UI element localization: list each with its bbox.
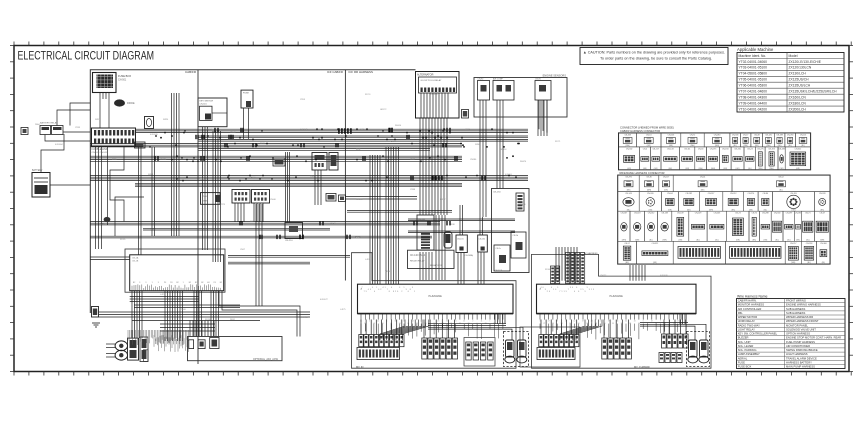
svg-text:7: 7 (559, 291, 560, 293)
svg-text:9: 9 (557, 287, 558, 289)
svg-text:▲ CAUTION: Parts numbers on th: ▲ CAUTION: Parts numbers on the drawing … (583, 51, 725, 55)
wire (408, 231, 515, 233)
flasher unit (285, 223, 303, 239)
svg-text:ZX135US/LCH: ZX135US/LCH (789, 84, 811, 88)
svg-text:L-R46: L-R46 (520, 204, 526, 206)
svg-text:4: 4 (374, 291, 375, 293)
wire (428, 324, 506, 329)
connector cell (707, 211, 727, 241)
svg-text:5W24: 5W24 (163, 119, 169, 121)
wire (228, 262, 310, 264)
svg-text:RELAY BOX: RELAY BOX (430, 264, 443, 267)
wire (194, 291, 202, 337)
connector cell (630, 211, 644, 241)
wire (110, 147, 124, 222)
wire (560, 320, 602, 341)
wire (143, 228, 330, 230)
connector cell (681, 133, 704, 147)
wire (688, 326, 695, 340)
svg-text:3: 3 (570, 287, 571, 289)
svg-text:B2: B2 (133, 282, 135, 284)
svg-text:CN-1A: CN-1A (132, 257, 139, 260)
wire (538, 100, 540, 129)
wire (315, 170, 321, 205)
svg-text:6: 6 (549, 291, 550, 293)
pressure sensor dashed box 2 (687, 332, 710, 367)
svg-text:(BK): (BK) (669, 168, 673, 170)
svg-text:39: 39 (612, 323, 614, 325)
svg-text:ZX130/LCH: ZX130/LCH (789, 72, 807, 76)
svg-text:36: 36 (617, 321, 619, 323)
connector plug (684, 334, 689, 348)
svg-text:0: 0 (543, 287, 544, 289)
connector cell (814, 211, 830, 241)
wire (134, 305, 240, 308)
wire (96, 147, 102, 249)
relay R2 (329, 153, 338, 171)
svg-text:CN-501: CN-501 (118, 79, 127, 82)
connector plug (446, 338, 451, 359)
connector group sub-box (520, 327, 580, 367)
svg-text:B2: B2 (195, 282, 197, 284)
svg-text:FRONT WIRING: FRONT WIRING (786, 299, 806, 303)
connector cell (689, 211, 707, 241)
svg-text:CN-72: CN-72 (751, 213, 756, 215)
svg-text:CN-118: CN-118 (634, 213, 640, 215)
pressure sensor PS2 (518, 340, 527, 357)
svg-text:SUB HARNESS: SUB HARNESS (786, 307, 805, 311)
svg-text:MONITOR HARNESS: MONITOR HARNESS (738, 303, 765, 307)
svg-text:6: 6 (578, 291, 579, 293)
svg-text:SOL. LEVER: SOL. LEVER (738, 344, 754, 348)
terminal block left (92, 307, 99, 318)
connector cell (744, 192, 758, 212)
wire (90, 176, 528, 181)
svg-text:AIR COMP: AIR COMP (493, 78, 504, 81)
svg-text:CN-109: CN-109 (695, 213, 702, 215)
svg-text:CN-73: CN-73 (330, 223, 337, 225)
pin stub row (361, 314, 503, 320)
pin stub row (540, 314, 686, 320)
svg-text:1: 1 (376, 287, 377, 289)
svg-text:P4: P4 (164, 282, 166, 284)
wire (190, 321, 214, 337)
connector plug (549, 335, 553, 347)
svg-text:CN-195: CN-195 (790, 193, 797, 195)
svg-text:AIR CONDITIONER: AIR CONDITIONER (786, 344, 810, 348)
svg-text:CN-62: CN-62 (202, 196, 209, 198)
svg-text:OPTIONAL_ADJ_ACW: OPTIONAL_ADJ_ACW (253, 358, 279, 361)
svg-text:YR59: YR59 (300, 99, 306, 101)
connector cell (740, 133, 751, 147)
svg-text:CN-217: CN-217 (652, 148, 659, 150)
svg-text:1: 1 (591, 289, 592, 291)
svg-text:MC (CAB/FR): MC (CAB/FR) (634, 365, 650, 369)
svg-text:YT08-04001-04300: YT08-04001-04300 (739, 96, 768, 100)
wire (106, 343, 115, 345)
multi-connector strip (537, 348, 575, 360)
svg-text:GR154: GR154 (500, 149, 507, 151)
svg-text:(GR): (GR) (685, 168, 689, 170)
connector cell (778, 147, 785, 170)
svg-text:8: 8 (389, 291, 390, 293)
svg-text:Applicable Machine: Applicable Machine (737, 47, 774, 52)
svg-text:5: 5 (566, 291, 567, 293)
svg-text:0: 0 (572, 287, 573, 289)
svg-text:KEY SWITCH: KEY SWITCH (200, 101, 214, 103)
svg-text:SOLENOID VALVE UNIT: SOLENOID VALVE UNIT (786, 327, 816, 331)
connector plug (379, 335, 383, 347)
svg-text:R2.56: R2.56 (390, 141, 396, 143)
svg-text:3: 3 (399, 287, 400, 289)
pressure sensor PS3 (689, 340, 698, 357)
svg-text:5: 5 (587, 287, 588, 289)
svg-text:CN-143: CN-143 (625, 193, 632, 195)
svg-text:1: 1 (414, 291, 415, 293)
wire (90, 236, 432, 238)
svg-text:0: 0 (574, 291, 575, 293)
svg-text:(WH): (WH) (698, 168, 703, 170)
svg-text:L-R75: L-R75 (340, 309, 346, 311)
svg-text:CN-274: CN-274 (748, 193, 755, 195)
svg-text:2: 2 (547, 291, 548, 293)
monitor controller block U1 (130, 255, 224, 291)
svg-text:5: 5 (369, 321, 370, 323)
svg-text:(BL): (BL) (822, 262, 826, 264)
svg-text:R2.35: R2.35 (120, 239, 126, 241)
wire (152, 147, 155, 236)
svg-text:7: 7 (362, 287, 363, 289)
wire label texture (35, 94, 669, 321)
svg-text:CN-328: CN-328 (819, 193, 826, 195)
svg-text:CN-1d: CN-1d (513, 235, 518, 237)
connector plug (659, 353, 664, 363)
wire (219, 291, 300, 337)
wire (380, 320, 429, 341)
svg-text:DIODE: DIODE (127, 102, 135, 105)
svg-text:4: 4 (551, 287, 552, 289)
svg-text:7: 7 (364, 291, 365, 293)
glow controller box (417, 215, 434, 250)
svg-text:4: 4 (383, 287, 384, 289)
svg-text:CN-312: CN-312 (730, 193, 737, 195)
svg-text:2: 2 (395, 291, 396, 293)
svg-text:17: 17 (548, 321, 550, 323)
svg-text:CN-47: CN-47 (819, 213, 824, 215)
svg-text:CN-23: CN-23 (747, 148, 752, 150)
svg-text:9: 9 (372, 287, 373, 289)
connector cell (618, 241, 637, 264)
svg-text:0.85G20: 0.85G20 (660, 275, 669, 277)
wire (107, 147, 109, 218)
svg-text:6: 6 (397, 291, 398, 293)
wire (541, 320, 577, 335)
sensor S2 (493, 81, 514, 101)
svg-text:TRAVEL ALARM DEVICE: TRAVEL ALARM DEVICE (786, 356, 817, 360)
svg-text:CN-296: CN-296 (625, 177, 632, 179)
main harness region box CAB (90, 70, 415, 313)
connector plug (434, 338, 439, 359)
connector cell (618, 211, 630, 241)
wire (254, 203, 263, 222)
svg-text:L-R90: L-R90 (150, 229, 156, 231)
wire comb texture (128, 330, 189, 352)
timer unit box (201, 193, 221, 205)
svg-text:R2.73: R2.73 (250, 177, 256, 179)
svg-text:1: 1 (553, 289, 554, 291)
svg-text:L-R37: L-R37 (440, 199, 446, 201)
svg-text:CN-302: CN-302 (626, 148, 633, 150)
svg-text:W-B14: W-B14 (395, 125, 402, 127)
wire (222, 291, 297, 337)
connector cell (723, 192, 744, 212)
svg-text:A1: A1 (207, 281, 209, 284)
svg-text:WIPER MOTOR: WIPER MOTOR (738, 315, 758, 319)
svg-text:YT05-04001-05100: YT05-04001-05100 (739, 78, 768, 82)
svg-text:L-R37: L-R37 (365, 259, 371, 261)
connector cell (817, 241, 831, 264)
junction cluster at alternator bundle (419, 128, 448, 138)
pin label texture above block (541, 287, 595, 293)
svg-text:MAIN PUMP HARNESS: MAIN PUMP HARNESS (786, 365, 815, 369)
wire (495, 314, 505, 324)
svg-text:RELAY RELAY: RELAY RELAY (410, 260, 425, 263)
connector plug (440, 338, 445, 359)
svg-text:0.85G39: 0.85G39 (205, 129, 214, 131)
fuse relay box ICF (492, 189, 530, 273)
svg-text:YR74: YR74 (465, 129, 471, 131)
wire (480, 100, 486, 217)
wire (235, 203, 244, 222)
svg-text:P4: P4 (170, 282, 172, 284)
svg-text:1: 1 (562, 291, 563, 293)
svg-text:YT04-05601-05800: YT04-05601-05800 (739, 72, 768, 76)
svg-text:FUSE: FUSE (738, 360, 745, 364)
svg-text:TIMER: TIMER (202, 201, 209, 203)
pressure sensor dashed box (504, 332, 529, 367)
wire (228, 256, 350, 258)
svg-text:LAMP ASSEMBLY: LAMP ASSEMBLY (738, 352, 760, 356)
connector plug (662, 334, 667, 348)
svg-text:CN-84: CN-84 (763, 193, 768, 195)
svg-text:CN-84: CN-84 (667, 193, 672, 195)
striped connector above MC2 (551, 266, 555, 284)
glow plug cylinder (444, 232, 452, 248)
svg-text:5: 5 (498, 321, 499, 323)
svg-text:0: 0 (555, 289, 556, 291)
svg-text:CN-1B: CN-1B (132, 261, 139, 263)
svg-text:0.85G60: 0.85G60 (430, 94, 439, 96)
battery BAT1 (32, 173, 50, 198)
harness region divider ICF (344, 70, 346, 281)
svg-text:CN-90: CN-90 (478, 79, 485, 81)
junction cluster at divider (338, 128, 352, 133)
svg-text:CN-71: CN-71 (805, 213, 810, 215)
svg-text:CN-113: CN-113 (800, 134, 806, 136)
svg-text:CN-126: CN-126 (668, 134, 675, 136)
connector plug (389, 335, 393, 347)
svg-text:CN-109: CN-109 (677, 213, 684, 215)
wire (211, 291, 219, 337)
striped connector above MC2 (566, 253, 570, 284)
connector cell (801, 211, 814, 241)
svg-text:B2: B2 (201, 282, 203, 284)
relay fuse strip block (92, 128, 136, 147)
long multi-pin strip (678, 247, 721, 259)
wire (199, 136, 529, 141)
connector group sub-box (464, 338, 495, 367)
wire (135, 183, 462, 186)
wire (160, 324, 215, 331)
connector cell (636, 133, 661, 147)
connector plug (554, 335, 558, 347)
connector cell (751, 133, 763, 147)
svg-text:CN-288: CN-288 (762, 213, 769, 215)
svg-text:CN-143: CN-143 (667, 148, 674, 150)
svg-text:YR88: YR88 (410, 189, 416, 191)
wire (57, 110, 90, 126)
svg-text:1: 1 (152, 282, 153, 284)
connector plug (575, 335, 579, 347)
connector cell (619, 133, 637, 147)
wire (420, 252, 432, 280)
connector plug (359, 335, 363, 347)
svg-text:GR172: GR172 (380, 109, 387, 111)
svg-text:1: 1 (490, 321, 491, 323)
svg-text:Machine Ident. No.: Machine Ident. No. (739, 54, 767, 58)
drawing sheet border frame (14, 46, 849, 372)
svg-text:1: 1 (564, 291, 565, 293)
svg-text:CN-10: CN-10 (230, 132, 237, 134)
wire (361, 320, 402, 335)
svg-text:CN-198: CN-198 (806, 243, 813, 245)
connector cell (774, 133, 785, 147)
svg-text:PL/ENGINE: PL/ENGINE (610, 295, 624, 298)
svg-text:CN-299: CN-299 (786, 213, 793, 215)
wire (199, 149, 431, 151)
svg-text:CN-194: CN-194 (768, 148, 775, 150)
svg-text:CN-306: CN-306 (820, 243, 827, 245)
connector plug (677, 353, 682, 363)
svg-text:CN-53: CN-53 (698, 148, 703, 150)
monitor pin tick texture (132, 284, 220, 290)
svg-text:CAB/FR: CAB/FR (185, 70, 197, 74)
connector plug (369, 335, 373, 347)
svg-text:CN-182: CN-182 (686, 193, 693, 195)
svg-text:CN-57: CN-57 (624, 243, 629, 245)
svg-text:ZX200/LCH: ZX200/LCH (789, 107, 807, 111)
svg-text:0: 0 (378, 289, 379, 291)
svg-text:CN-4: CN-4 (643, 148, 647, 150)
connector plug (544, 335, 548, 347)
svg-text:CN-36: CN-36 (646, 177, 651, 179)
svg-text:3: 3 (545, 289, 546, 291)
svg-text:CN-17: CN-17 (743, 134, 748, 136)
svg-text:P4: P4 (214, 282, 216, 284)
wiper motor M1 (115, 341, 127, 351)
svg-text:AERIAL: AERIAL (738, 356, 748, 360)
wire (386, 147, 399, 284)
svg-text:B2: B2 (176, 282, 178, 284)
connector plug (539, 335, 543, 347)
junction box on divider (339, 195, 346, 202)
svg-text:CN-131: CN-131 (457, 239, 464, 241)
horn connector (462, 110, 469, 119)
svg-text:9: 9 (370, 289, 371, 291)
connector plug (384, 335, 388, 347)
svg-text:CN-48: CN-48 (754, 134, 759, 136)
multi-connector strip (357, 348, 400, 360)
svg-text:33: 33 (446, 321, 448, 323)
svg-text:3: 3 (589, 289, 590, 291)
connector cell (699, 192, 723, 212)
svg-text:Wire Harness Name: Wire Harness Name (737, 294, 768, 298)
wire (421, 93, 448, 118)
option connector A (189, 340, 194, 349)
svg-text:CN-184: CN-184 (722, 148, 729, 150)
wire (538, 100, 547, 136)
wire (90, 156, 462, 161)
svg-text:CN122: CN122 (600, 275, 607, 277)
fuse box FB1 (93, 73, 117, 93)
svg-text:CN-322: CN-322 (652, 243, 659, 245)
svg-text:(WH): (WH) (769, 168, 774, 170)
wire (540, 324, 686, 340)
svg-text:12: 12 (574, 321, 576, 323)
engine sensor group box (474, 78, 567, 118)
svg-text:B2: B2 (189, 282, 191, 284)
svg-text:CN-300: CN-300 (774, 213, 781, 215)
slow blow fuse F1 (145, 117, 154, 129)
connector plug (671, 353, 676, 363)
wire (50, 184, 90, 186)
svg-text:YT03-04001-05100: YT03-04001-05100 (739, 66, 768, 70)
svg-text:(WH): (WH) (791, 262, 796, 264)
connector plug (400, 335, 404, 347)
connector cell (673, 175, 732, 192)
svg-text:To order parts on the drawing,: To order parts on the drawing, be sure t… (600, 57, 712, 61)
svg-text:3: 3 (406, 289, 407, 291)
wire (99, 312, 311, 317)
svg-text:ICF CAB/FR: ICF CAB/FR (327, 70, 343, 74)
svg-text:YT07-04201-04600: YT07-04201-04600 (739, 90, 768, 94)
controller section box MC-CABFR (532, 254, 712, 368)
svg-text:B2: B2 (220, 282, 222, 284)
svg-text:ZX120/-E/130-E/CH/E: ZX120/-E/130-E/CH/E (789, 60, 822, 64)
svg-text:24: 24 (438, 321, 440, 323)
svg-text:R2.29: R2.29 (355, 237, 361, 239)
monitor controller outer box (125, 249, 225, 292)
svg-text:CN-283: CN-283 (778, 148, 785, 150)
connector cell (639, 192, 661, 212)
svg-text:AC HARNESS: AC HARNESS (584, 252, 598, 255)
svg-text:FUSE BOX: FUSE BOX (738, 365, 752, 369)
svg-text:5W64: 5W64 (148, 174, 154, 176)
svg-text:BATTERY: BATTERY (32, 169, 43, 172)
svg-text:6: 6 (391, 287, 392, 289)
svg-text:3: 3 (139, 282, 140, 284)
svg-text:8: 8 (393, 291, 394, 293)
connector plug (559, 335, 563, 347)
svg-text:CN-288: CN-288 (776, 134, 783, 136)
svg-text:(GR): (GR) (627, 168, 631, 170)
svg-text:CN-41: CN-41 (700, 177, 705, 179)
connector cell (639, 147, 650, 170)
wire (370, 155, 380, 284)
block bottom edge (537, 313, 697, 315)
connector cell (783, 211, 795, 241)
connector plug (564, 335, 568, 347)
